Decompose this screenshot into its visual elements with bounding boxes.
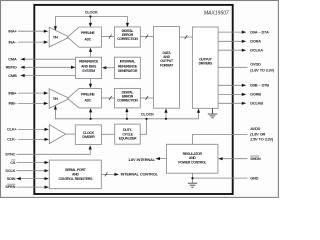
- svg-text:ADC: ADC: [84, 99, 91, 103]
- svg-text:EQUALIZER: EQUALIZER: [119, 136, 137, 140]
- svg-text:INTERNAL CONTROL: INTERNAL CONTROL: [121, 172, 159, 177]
- svg-text:CORRECTION: CORRECTION: [117, 99, 138, 103]
- pipeline ADC B: [68, 88, 102, 108]
- pin DORB: [218, 92, 261, 97]
- pin D0B-D7B: [218, 83, 269, 88]
- pin SHDN: [218, 156, 261, 161]
- svg-text:SHDN: SHDN: [250, 156, 261, 161]
- svg-text:DCLKB: DCLKB: [250, 101, 263, 106]
- T/H amp A: [49, 27, 69, 47]
- svg-text:SCLK: SCLK: [5, 168, 15, 173]
- svg-text:INB+: INB+: [8, 90, 17, 95]
- svg-text:ADC: ADC: [84, 37, 91, 41]
- svg-text:POWER CONTROL: POWER CONTROL: [178, 161, 207, 165]
- svg-text:PIPELINE: PIPELINE: [81, 31, 96, 35]
- internal reference generator: [114, 57, 140, 78]
- svg-text:2.5V TO 3.3V): 2.5V TO 3.3V): [250, 137, 274, 142]
- regulator and power control: [166, 144, 218, 173]
- svg-text:DCLKA: DCLKA: [250, 48, 263, 53]
- svg-text:CMA: CMA: [8, 57, 17, 62]
- pin CMB: [8, 73, 75, 78]
- pin DORA: [218, 39, 261, 44]
- svg-text:SERIAL PORT: SERIAL PORT: [65, 168, 87, 172]
- T/H amp B: [49, 89, 69, 109]
- pin CLK-: [7, 137, 49, 142]
- svg-text:SYSTEM: SYSTEM: [82, 69, 95, 73]
- svg-text:FORMAT: FORMAT: [160, 63, 174, 67]
- svg-text:D0A – D7A: D0A – D7A: [250, 29, 269, 34]
- pin CMA: [8, 57, 75, 62]
- wire REF down to ADC B: [89, 79, 92, 89]
- wire buffer to clock divider: [66, 133, 76, 135]
- wire clock divider to duty-cycle equalizer: [101, 133, 114, 135]
- svg-text:DRIVERS: DRIVERS: [199, 62, 213, 66]
- pin SPEN: [5, 184, 48, 189]
- pin SYNC: [5, 145, 92, 156]
- pin DCLKB: [218, 101, 263, 106]
- ground under regulator: [188, 173, 197, 187]
- pin INA+: [8, 29, 48, 34]
- pin SCLK: [5, 168, 48, 173]
- bus ADC A to DEC A: [101, 35, 114, 39]
- ground under output drivers: [208, 108, 217, 118]
- bus DEC B to data block: [140, 96, 153, 100]
- pin GND: [193, 175, 259, 180]
- svg-text:PIPELINE: PIPELINE: [81, 93, 96, 97]
- svg-text:MAX19507: MAX19507: [204, 10, 230, 16]
- svg-text:AND: AND: [72, 172, 79, 176]
- 1.8V internal net: [128, 157, 166, 162]
- pin D0A-D7A: [218, 29, 269, 34]
- clock buffer amp: [49, 125, 65, 144]
- svg-text:CLOCK: CLOCK: [85, 10, 98, 15]
- bus DEC A to data block: [140, 35, 153, 39]
- svg-text:DIVIDER: DIVIDER: [82, 135, 95, 139]
- svg-text:GENERATOR: GENERATOR: [118, 69, 138, 73]
- serial port and control registers: [49, 160, 101, 189]
- bus data to output drivers: [180, 35, 193, 39]
- wire DCE to clock net: [140, 120, 146, 135]
- pipeline ADC A: [68, 27, 102, 47]
- duty-cycle equalizer: [115, 124, 141, 144]
- svg-text:OVDD: OVDD: [250, 62, 261, 67]
- bus ADC B to DEC B: [101, 96, 114, 100]
- clock net bottom: [54, 105, 200, 120]
- digital error correction A: [114, 27, 140, 47]
- svg-text:INTERNAL: INTERNAL: [120, 60, 136, 64]
- digital error correction B: [114, 88, 140, 108]
- svg-text:CMB: CMB: [8, 73, 17, 78]
- reference and bias system: [76, 57, 102, 78]
- svg-text:SPEN: SPEN: [5, 184, 15, 189]
- svg-text:INB–: INB–: [8, 101, 17, 106]
- pin CS: [10, 160, 49, 165]
- pin INB-: [8, 101, 48, 106]
- pin OVDD: [218, 62, 275, 73]
- svg-text:INA+: INA+: [8, 29, 17, 34]
- pin REFIO: [6, 65, 76, 70]
- outer frame: [1, 1, 279, 198]
- svg-text:CLK–: CLK–: [7, 137, 17, 142]
- svg-text:T/H: T/H: [53, 97, 59, 101]
- svg-text:DORB: DORB: [250, 92, 261, 97]
- pin AVDD: [192, 126, 274, 144]
- svg-text:REFIO: REFIO: [6, 65, 17, 70]
- wire IRG to REF: [102, 66, 114, 69]
- data and output format: [154, 27, 180, 109]
- svg-text:GND: GND: [250, 175, 258, 180]
- svg-text:CLOCK: CLOCK: [141, 112, 154, 117]
- clock divider: [75, 125, 101, 144]
- chip boundary MAX19507: [34, 5, 232, 194]
- svg-text:T/H: T/H: [53, 35, 59, 39]
- pin CLK+: [7, 127, 49, 132]
- pin INA-: [8, 39, 48, 44]
- svg-text:REFERENCE: REFERENCE: [79, 60, 99, 64]
- svg-text:CLK+: CLK+: [7, 127, 17, 132]
- svg-text:D0B – D7B: D0B – D7B: [250, 83, 269, 88]
- pin DCLKA: [218, 48, 263, 53]
- svg-text:CONTROL REGISTERS: CONTROL REGISTERS: [58, 177, 93, 181]
- svg-text:AND BIAS: AND BIAS: [81, 64, 97, 68]
- svg-text:CORRECTION: CORRECTION: [117, 37, 138, 41]
- output drivers: [192, 27, 218, 108]
- pin INB+: [8, 90, 48, 95]
- internal control net: [101, 172, 158, 177]
- svg-text:(1.8V TO 3.3V): (1.8V TO 3.3V): [250, 68, 275, 73]
- wire REF up to ADC A: [89, 48, 92, 58]
- svg-text:REFERENCE: REFERENCE: [118, 64, 138, 68]
- svg-text:CS: CS: [10, 160, 16, 165]
- pin SDIN bidirectional: [7, 176, 49, 181]
- svg-text:INA–: INA–: [8, 39, 17, 44]
- clock net top: [54, 10, 129, 31]
- svg-text:SYNC: SYNC: [5, 152, 15, 157]
- svg-text:SDIN: SDIN: [7, 176, 16, 181]
- svg-text:1.8V INTERNAL: 1.8V INTERNAL: [128, 157, 155, 162]
- svg-text:DORA: DORA: [250, 39, 261, 44]
